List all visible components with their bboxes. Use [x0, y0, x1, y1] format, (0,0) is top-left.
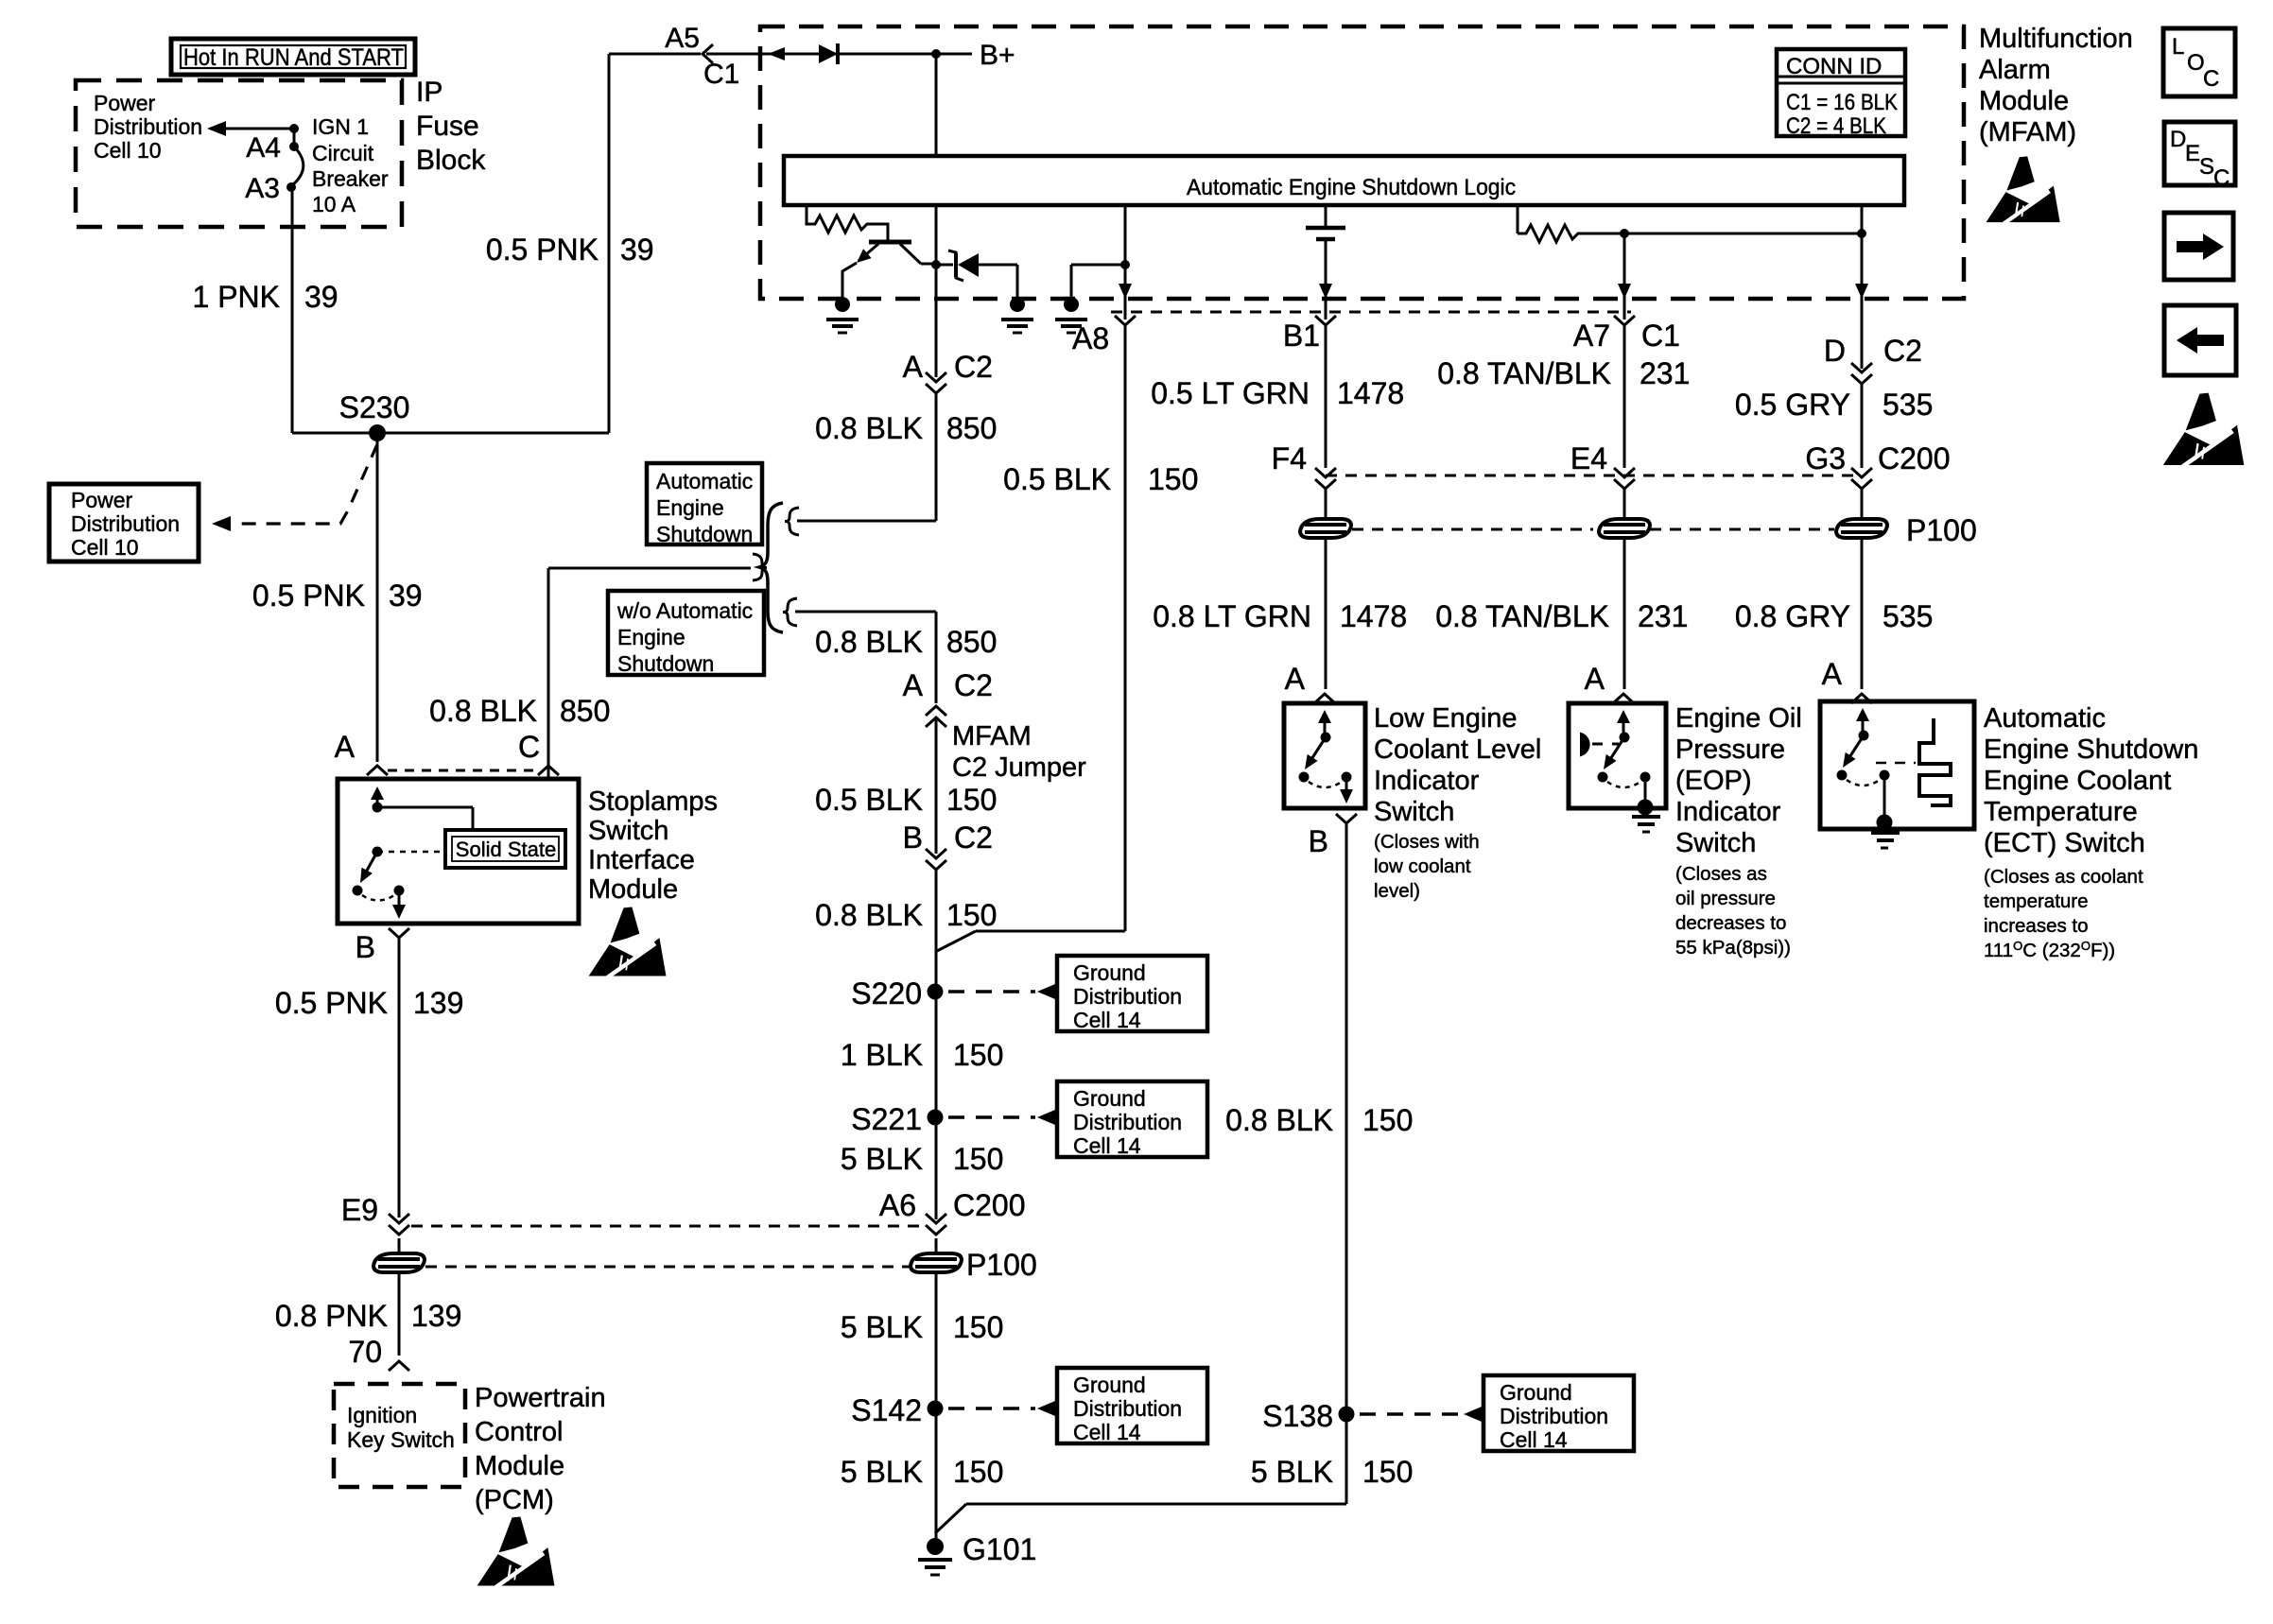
- svg-text:MFAM: MFAM: [952, 721, 1032, 752]
- svg-text:O: O: [2187, 50, 2205, 76]
- wire 0.5 BLK 150: [935, 717, 938, 854]
- LOC reference box: [2163, 28, 2235, 96]
- wire from bottom option brace to main column: [795, 611, 936, 613]
- B connector below coolant switch: [1336, 814, 1357, 823]
- svg-text:C2: C2: [954, 821, 993, 855]
- PCM connector chevron: [389, 1361, 409, 1371]
- solid state box: [445, 830, 565, 868]
- svg-text:Power: Power: [94, 91, 156, 115]
- svg-text:Ground: Ground: [1500, 1380, 1572, 1405]
- low engine coolant level indicator switch box: [1284, 703, 1365, 808]
- ECT temperature element: [1919, 718, 1951, 805]
- svg-text:Distribution: Distribution: [1073, 984, 1182, 1009]
- svg-text:Coolant Level: Coolant Level: [1374, 734, 1541, 765]
- pin A3: [286, 182, 296, 192]
- svg-text:0.5 PNK: 0.5 PNK: [486, 233, 599, 267]
- svg-text:IGN 1: IGN 1: [312, 114, 369, 139]
- svg-text:150: 150: [1362, 1103, 1413, 1137]
- svg-text:P100: P100: [1906, 513, 1977, 547]
- svg-text:G101: G101: [963, 1532, 1036, 1566]
- ESD symbol (right column): [2163, 393, 2245, 467]
- zener diode D2: [936, 264, 953, 267]
- B connector below stoplamps: [389, 928, 409, 938]
- ESD symbol (PCM): [477, 1517, 555, 1588]
- svg-text:A4: A4: [246, 132, 281, 164]
- svg-text:Alarm: Alarm: [1979, 55, 2051, 85]
- svg-text:(Closes as coolant: (Closes as coolant: [1984, 866, 2143, 888]
- connector chevron A5/C1: [703, 44, 713, 63]
- svg-text:Control: Control: [475, 1417, 564, 1447]
- wire 0.8 LT GRN 1478: [1325, 539, 1327, 689]
- connector C1 dashed line: [1111, 311, 1631, 314]
- svg-text:low coolant: low coolant: [1374, 855, 1471, 877]
- wire 5 BLK 150 to S142: [935, 1273, 938, 1546]
- svg-text:111OC (232OF)): 111OC (232OF)): [1984, 939, 2115, 961]
- svg-text:1 PNK: 1 PNK: [193, 280, 280, 314]
- wire 0.8 GRY 535: [1861, 539, 1864, 689]
- A / C2 jumper connector: [926, 706, 946, 716]
- svg-text:B: B: [356, 930, 375, 964]
- A7 / C1 chevron & labels: [1614, 316, 1635, 325]
- C200 dashed line (right): [1326, 475, 1861, 477]
- transistor Q1: [869, 240, 911, 245]
- svg-text:A8: A8: [1072, 321, 1109, 355]
- node D branch: [1857, 229, 1866, 238]
- power distribution cell 10 box (left): [49, 484, 199, 561]
- ESD symbol (stoplamps): [589, 907, 667, 978]
- svg-text:C2: C2: [954, 350, 993, 384]
- wire stubs through module edge: [1124, 299, 1127, 320]
- svg-text:139: 139: [413, 986, 463, 1020]
- stoplamps internals: entry arrow: [376, 792, 379, 807]
- resistor R2: [1517, 205, 1519, 233]
- A / C2 exit of MFAM: [926, 372, 946, 382]
- svg-text:(PCM): (PCM): [475, 1485, 554, 1515]
- wire: B+ node to logic box: [935, 54, 938, 156]
- svg-text:Switch: Switch: [1675, 828, 1756, 858]
- svg-text:S220: S220: [851, 976, 922, 1011]
- svg-text:(ECT) Switch: (ECT) Switch: [1984, 828, 2145, 858]
- svg-text:Stoplamps: Stoplamps: [588, 786, 718, 817]
- svg-text:C200: C200: [1878, 441, 1951, 475]
- wire: main line through logic to A C2: [935, 205, 938, 377]
- wire: IGN1 feed arrow to Power Distribution: [222, 128, 294, 130]
- wire to P100 left: [398, 1238, 401, 1252]
- svg-text:Module: Module: [588, 874, 678, 905]
- svg-text:Interface: Interface: [588, 845, 695, 875]
- wire: A8 joins main ground wire: [976, 930, 1125, 933]
- wire A7 down, 0.8 TAN/BLK 231: [1623, 325, 1626, 468]
- svg-text:0.5 BLK: 0.5 BLK: [815, 783, 923, 817]
- ECT exit to ground: [1883, 775, 1886, 817]
- svg-text:10 A: 10 A: [312, 192, 356, 216]
- node: IGN1 junction: [289, 124, 299, 133]
- brace big (alternative split): [759, 503, 783, 632]
- svg-text:IP: IP: [416, 77, 442, 108]
- connector P100 (col 2): [1599, 519, 1650, 538]
- splice S230: [369, 424, 386, 441]
- svg-text:Indicator: Indicator: [1675, 797, 1781, 827]
- svg-text:C1: C1: [1641, 319, 1680, 353]
- svg-text:0.8 BLK: 0.8 BLK: [1225, 1103, 1333, 1137]
- svg-text:C: C: [2203, 66, 2219, 92]
- brace small (C wire): [753, 554, 767, 580]
- svg-text:Distribution: Distribution: [94, 114, 202, 139]
- svg-text:0.8 BLK: 0.8 BLK: [815, 898, 923, 932]
- svg-text:Distribution: Distribution: [1073, 1110, 1182, 1134]
- ground distribution ref (S138): [1360, 1412, 1462, 1415]
- svg-text:C2: C2: [1883, 334, 1922, 368]
- ground (zener): [1010, 297, 1025, 312]
- exit arrows crossing module edge: [1119, 284, 1132, 299]
- connector P100 (left): [373, 1253, 425, 1272]
- svg-text:Engine Coolant: Engine Coolant: [1984, 766, 2171, 796]
- svg-text:Powertrain: Powertrain: [475, 1383, 606, 1413]
- svg-text:Engine Shutdown: Engine Shutdown: [1984, 734, 2198, 765]
- svg-text:S: S: [2199, 154, 2214, 180]
- svg-text:150: 150: [1362, 1455, 1413, 1489]
- IP fuse block dashed box: [76, 80, 402, 227]
- svg-text:Cell 14: Cell 14: [1073, 1133, 1141, 1158]
- svg-text:CONN ID: CONN ID: [1786, 54, 1882, 79]
- svg-text:5 BLK: 5 BLK: [841, 1310, 923, 1344]
- svg-text:231: 231: [1638, 599, 1688, 633]
- svg-text:Shutdown: Shutdown: [656, 522, 753, 546]
- svg-text:150: 150: [953, 1310, 1003, 1344]
- svg-text:A: A: [1822, 657, 1843, 691]
- svg-text:Solid State: Solid State: [456, 838, 556, 861]
- svg-text:C2 = 4 BLK: C2 = 4 BLK: [1786, 113, 1886, 139]
- svg-text:C: C: [2213, 165, 2230, 191]
- ESD symbol (MFAM): [1987, 156, 2060, 223]
- resistor R1: [807, 207, 888, 240]
- svg-text:C200: C200: [953, 1188, 1026, 1222]
- wire B down 0.8 BLK 150: [1345, 823, 1348, 1504]
- svg-text:E9: E9: [341, 1193, 378, 1227]
- svg-text:850: 850: [946, 411, 997, 445]
- svg-text:Distribution: Distribution: [1073, 1396, 1182, 1421]
- svg-text:535: 535: [1883, 599, 1933, 633]
- svg-text:39: 39: [389, 579, 423, 613]
- connector P100 (center): [911, 1253, 962, 1272]
- svg-text:Switch: Switch: [1374, 797, 1454, 827]
- svg-text:150: 150: [946, 783, 997, 817]
- svg-text:0.8 BLK: 0.8 BLK: [815, 411, 923, 445]
- capacitor C1 (logic bypass): [1325, 205, 1327, 227]
- stoplamps switch: pivot and arm: [373, 847, 383, 857]
- node B+: [931, 49, 941, 59]
- svg-text:1478: 1478: [1340, 599, 1407, 633]
- wire A8 from logic box down: [1124, 205, 1127, 299]
- svg-text:Ground: Ground: [1073, 1373, 1146, 1397]
- svg-text:(MFAM): (MFAM): [1979, 117, 2076, 147]
- wire: riser to A5 C1 fuse output, 0.5 PNK 39: [608, 54, 611, 433]
- connector P100 (col 3): [1836, 519, 1887, 538]
- svg-text:Multifunction: Multifunction: [1979, 24, 2133, 54]
- PCM dashed box: [334, 1384, 465, 1487]
- A8 connector chevron & label: [1115, 316, 1136, 325]
- svg-text:Cell 14: Cell 14: [1073, 1420, 1141, 1444]
- svg-text:0.8 TAN/BLK: 0.8 TAN/BLK: [1435, 599, 1609, 633]
- wire S138 joins G101: [966, 1503, 1346, 1506]
- B / C2 connector: [926, 849, 946, 858]
- pin A4: [289, 142, 299, 151]
- option box: w/o Automatic Engine Shutdown: [608, 591, 764, 675]
- diode D1 on B+ line: [819, 44, 838, 63]
- EOP pressure sensor symbol: [1581, 734, 1589, 755]
- svg-text:E4: E4: [1570, 441, 1607, 475]
- svg-text:A: A: [1285, 662, 1306, 696]
- svg-text:Cell 10: Cell 10: [71, 535, 139, 560]
- svg-text:S138: S138: [1262, 1399, 1333, 1433]
- svg-text:1478: 1478: [1337, 376, 1404, 410]
- svg-text:Pressure: Pressure: [1675, 734, 1785, 765]
- svg-text:Ignition: Ignition: [347, 1403, 417, 1427]
- svg-text:535: 535: [1883, 388, 1933, 422]
- stoplamps connector chevrons A and C: [367, 766, 388, 775]
- brace small (bottom option): [783, 598, 797, 626]
- svg-text:E: E: [2185, 141, 2200, 166]
- svg-text:39: 39: [620, 233, 654, 267]
- right arrow box: [2164, 213, 2233, 280]
- connector P100 (col 1): [1300, 519, 1351, 538]
- svg-text:increases to: increases to: [1984, 915, 2089, 937]
- svg-text:A3: A3: [245, 173, 280, 204]
- ground distribution ref (S220): [948, 990, 1035, 993]
- svg-text:B: B: [903, 821, 923, 855]
- svg-text:Temperature: Temperature: [1984, 797, 2138, 827]
- svg-text:Automatic: Automatic: [1984, 703, 2106, 734]
- ECT dashed link: [1876, 762, 1916, 765]
- svg-text:Module: Module: [1979, 86, 2069, 116]
- svg-text:D: D: [1824, 334, 1846, 368]
- ground distribution ref (S142): [948, 1407, 1035, 1409]
- node: collector junction: [931, 260, 941, 269]
- svg-text:Shutdown: Shutdown: [617, 651, 714, 676]
- ground (A8 branch): [1070, 265, 1073, 297]
- svg-text:Engine: Engine: [656, 495, 724, 520]
- svg-text:Distribution: Distribution: [71, 511, 180, 536]
- svg-text:850: 850: [560, 694, 610, 728]
- svg-text:S221: S221: [851, 1102, 922, 1136]
- svg-text:Breaker: Breaker: [312, 166, 389, 191]
- wire: junction to A4: [293, 129, 296, 145]
- D / C2 chevrons & labels: [1851, 363, 1872, 372]
- svg-text:0.8 BLK: 0.8 BLK: [815, 625, 923, 659]
- svg-text:0.5 LT GRN: 0.5 LT GRN: [1151, 376, 1310, 410]
- splice S221: [928, 1110, 944, 1126]
- svg-text:5 BLK: 5 BLK: [841, 1142, 923, 1176]
- svg-text:231: 231: [1640, 356, 1690, 390]
- wire 0.8 BLK 150 down: [935, 870, 938, 1219]
- svg-text:0.8 TAN/BLK: 0.8 TAN/BLK: [1437, 356, 1611, 390]
- svg-text:S142: S142: [851, 1393, 922, 1427]
- wire D down, 0.5 GRY 535: [1861, 384, 1864, 468]
- P100 dashed line (left): [425, 1266, 910, 1269]
- svg-text:0.5 BLK: 0.5 BLK: [1003, 462, 1111, 496]
- circuit breaker CB (arc A4-A3): [291, 147, 304, 186]
- svg-text:0.5 GRY: 0.5 GRY: [1735, 388, 1850, 422]
- splice S220: [928, 984, 944, 1000]
- svg-text:Cell 14: Cell 14: [1500, 1427, 1568, 1452]
- svg-text:P100: P100: [966, 1248, 1037, 1282]
- EOP exit to ground: [1644, 777, 1647, 802]
- svg-text:850: 850: [946, 625, 997, 659]
- splice S138: [1339, 1407, 1355, 1423]
- left arrow box: [2164, 305, 2236, 375]
- svg-text:C1 = 16 BLK: C1 = 16 BLK: [1786, 90, 1898, 115]
- svg-text:A5: A5: [665, 23, 700, 54]
- svg-text:C1: C1: [703, 59, 739, 90]
- svg-text:150: 150: [953, 1455, 1003, 1489]
- wire A8 down, 0.5 BLK 150: [1124, 325, 1127, 931]
- ground G101: [927, 1538, 944, 1555]
- wire B down 0.5 PNK 139: [398, 938, 401, 1218]
- svg-text:0.8 LT GRN: 0.8 LT GRN: [1153, 599, 1311, 633]
- svg-text:C2: C2: [954, 668, 993, 702]
- svg-text:0.8 GRY: 0.8 GRY: [1735, 599, 1850, 633]
- svg-text:Ground: Ground: [1073, 1086, 1146, 1111]
- DESC reference box: [2164, 122, 2235, 185]
- svg-text:G3: G3: [1805, 441, 1846, 475]
- wire B1 down, 0.5 LT GRN 1478: [1325, 325, 1327, 468]
- wire to solid state: [377, 806, 473, 809]
- svg-text:Fuse: Fuse: [416, 111, 479, 142]
- svg-text:F4: F4: [1272, 441, 1307, 475]
- svg-text:w/o Automatic: w/o Automatic: [616, 598, 753, 623]
- wire 0.8 PNK 139 to PCM: [398, 1273, 401, 1356]
- svg-text:temperature: temperature: [1984, 890, 2089, 912]
- wire to P100: [1325, 489, 1327, 518]
- arrowhead into MFAM B+ line: [768, 47, 785, 60]
- svg-text:A: A: [903, 668, 924, 702]
- svg-text:A: A: [1585, 662, 1605, 696]
- stoplamps switch interface module box: [338, 779, 579, 924]
- svg-text:decreases to: decreases to: [1675, 912, 1786, 934]
- wire: S230 down to stoplamps A, 0.5 PNK 39: [376, 433, 379, 762]
- svg-text:70: 70: [348, 1335, 382, 1369]
- wire: stoplamps C to option brace: [547, 568, 550, 779]
- wire from connector into MFAM: [706, 53, 936, 56]
- coolant switch exit to B: [1345, 777, 1348, 795]
- svg-text:A: A: [903, 350, 924, 384]
- svg-text:150: 150: [953, 1142, 1003, 1176]
- wire 0.8 BLK 850 to option brace: [935, 393, 938, 521]
- wire to P100: [935, 1238, 938, 1252]
- svg-text:150: 150: [1148, 462, 1198, 496]
- label box: Hot In RUN And START: [171, 39, 415, 75]
- svg-text:150: 150: [946, 898, 997, 932]
- svg-text:(EOP): (EOP): [1675, 766, 1752, 796]
- ECT switch box: [1820, 701, 1974, 829]
- svg-text:L: L: [2172, 34, 2184, 60]
- option box: Automatic Engine Shutdown: [647, 463, 762, 544]
- C200 dashed line (left): [411, 1225, 925, 1228]
- stoplamps exit arrow to B: [398, 890, 401, 909]
- svg-text:Engine: Engine: [617, 625, 685, 649]
- svg-text:Key Switch: Key Switch: [347, 1427, 455, 1452]
- ground distribution ref (S221): [948, 1115, 1035, 1118]
- svg-text:Switch: Switch: [588, 816, 668, 846]
- svg-text:0.5 PNK: 0.5 PNK: [252, 579, 365, 613]
- splice S142: [928, 1401, 944, 1417]
- svg-text:(Closes as: (Closes as: [1675, 863, 1767, 885]
- CONN ID table: [1777, 49, 1905, 136]
- svg-text:Circuit: Circuit: [312, 141, 374, 165]
- node on A8 wire: [1120, 260, 1130, 269]
- svg-text:B1: B1: [1283, 319, 1320, 353]
- svg-text:B+: B+: [980, 40, 1015, 71]
- svg-text:B: B: [1309, 824, 1328, 858]
- svg-text:Engine Oil: Engine Oil: [1675, 703, 1802, 734]
- svg-text:oil pressure: oil pressure: [1675, 888, 1776, 909]
- wire: S230 horizontal run: [292, 432, 609, 435]
- engine oil pressure switch box: [1569, 703, 1666, 808]
- svg-text:1 BLK: 1 BLK: [841, 1038, 923, 1072]
- svg-text:D: D: [2170, 127, 2186, 152]
- svg-text:150: 150: [953, 1038, 1003, 1072]
- svg-text:Cell 14: Cell 14: [1073, 1008, 1141, 1032]
- MFAM dashed module box: [760, 26, 1964, 299]
- ground (Q1 emitter): [835, 297, 850, 312]
- brace small (top option): [785, 508, 799, 535]
- svg-text:5 BLK: 5 BLK: [841, 1455, 923, 1489]
- svg-text:0.8 BLK: 0.8 BLK: [429, 694, 537, 728]
- P100 dashed line (right): [1352, 528, 1593, 531]
- logic box: Automatic Engine Shutdown Logic: [784, 156, 1904, 205]
- svg-text:Hot In RUN And START: Hot In RUN And START: [183, 44, 404, 71]
- node A7 branch: [1620, 229, 1629, 238]
- svg-text:Low Engine: Low Engine: [1374, 703, 1518, 734]
- svg-text:(Closes with: (Closes with: [1374, 831, 1480, 853]
- svg-text:39: 39: [304, 280, 338, 314]
- svg-text:55 kPa(8psi)): 55 kPa(8psi)): [1675, 937, 1791, 959]
- svg-text:Indicator: Indicator: [1374, 766, 1480, 796]
- svg-text:A: A: [335, 730, 356, 764]
- svg-text:Automatic Engine Shutdown Logi: Automatic Engine Shutdown Logic: [1187, 175, 1516, 200]
- svg-text:5 BLK: 5 BLK: [1251, 1455, 1333, 1489]
- wire: A3 down to S230 row, circuit 39: [291, 187, 294, 433]
- svg-text:C2 Jumper: C2 Jumper: [952, 752, 1086, 783]
- svg-text:Power: Power: [71, 488, 133, 512]
- svg-text:Distribution: Distribution: [1500, 1404, 1608, 1428]
- dashed arrow S230 to Power Distribution Cell 10: [238, 444, 377, 524]
- svg-text:Cell 10: Cell 10: [94, 138, 162, 163]
- wire 0.8 BLK 850 down to MFAM C2 jumper: [935, 612, 938, 703]
- svg-text:A7: A7: [1573, 319, 1610, 353]
- svg-text:Automatic: Automatic: [656, 469, 753, 493]
- svg-text:A6: A6: [879, 1188, 916, 1222]
- svg-text:Module: Module: [475, 1451, 564, 1481]
- wire 0.8 TAN/BLK 231 lower: [1623, 539, 1626, 689]
- svg-text:139: 139: [411, 1299, 461, 1333]
- svg-text:Ground: Ground: [1073, 960, 1146, 985]
- svg-text:level): level): [1374, 880, 1420, 902]
- svg-text:Block: Block: [416, 145, 486, 176]
- wire D from logic box down: [1861, 205, 1864, 299]
- svg-text:S230: S230: [339, 390, 410, 424]
- svg-text:0.8 PNK: 0.8 PNK: [275, 1299, 388, 1333]
- svg-text:C: C: [518, 730, 540, 764]
- svg-text:0.5 PNK: 0.5 PNK: [275, 986, 388, 1020]
- B1 connector chevron & label: [1315, 316, 1336, 325]
